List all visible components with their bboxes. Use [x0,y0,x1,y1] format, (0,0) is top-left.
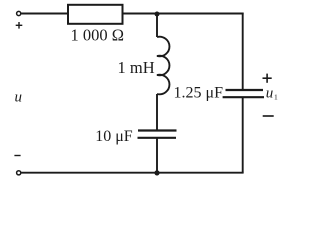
svg-text:1 mH: 1 mH [118,58,155,77]
right vertical wire upper [242,13,244,90]
resistor R 1000 ohm [68,5,123,24]
svg-text:1.25 μF: 1.25 μF [174,85,224,102]
wire resistor to corner [123,13,244,15]
svg-text:u: u [15,90,23,106]
wire junction down to coil [156,14,158,37]
wire coil to cap [156,94,158,131]
minus label input [14,155,20,157]
svg-text:1 000 Ω: 1 000 Ω [71,26,125,45]
wire cap to bottom [156,138,158,173]
capacitor C 10 uF [138,131,177,138]
minus label output [263,115,274,117]
svg-text:1: 1 [274,92,278,101]
wire top-left [21,13,68,15]
inductor L 1 mH [157,37,169,95]
svg-text:u: u [266,86,274,102]
capacitor C1 1.25 uF [223,90,264,97]
svg-text:10 μF: 10 μF [95,128,133,145]
bottom wire [21,172,243,174]
node junction top [155,12,160,17]
terminal top-left [17,11,21,15]
terminal bottom-left [17,171,21,175]
right vertical wire lower [242,97,244,173]
node junction bottom [154,170,159,175]
plus label input [16,22,23,29]
plus label output [263,74,272,83]
